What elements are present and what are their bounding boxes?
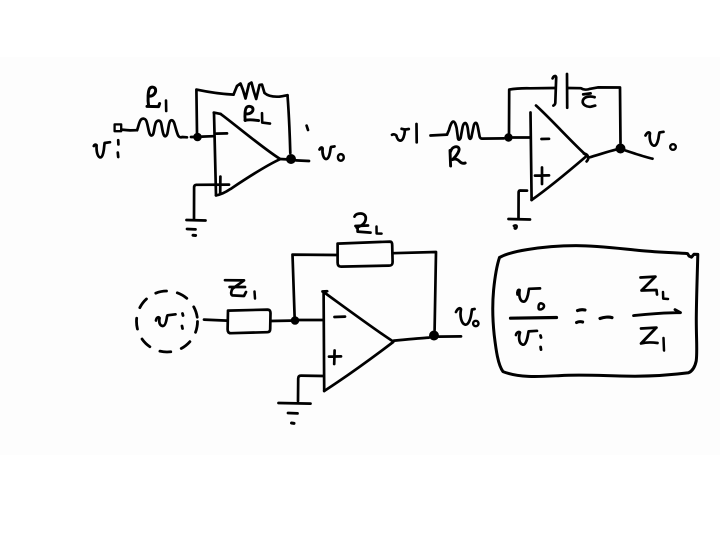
- op-amp U1 body: [214, 113, 280, 196]
- wire output (circuit 1): [296, 159, 309, 162]
- resistor R1: [137, 119, 187, 138]
- impedance Z2 box: [338, 242, 393, 267]
- op-amp U1 inverting pin label: [217, 132, 228, 135]
- drawing canvas band: [0, 57, 720, 455]
- node Vi label (circuit 3): [156, 314, 183, 329]
- label Vo (circuit 1): [320, 146, 344, 160]
- wire op-amp U3 output to node: [394, 338, 429, 341]
- node output junction (circuit 2): [616, 144, 626, 154]
- capacitor C plate 2: [566, 74, 569, 108]
- wire op-amp U2 output to node: [589, 150, 616, 158]
- wire output stub (circuit 3): [439, 335, 461, 338]
- label Vo (circuit 3): [456, 308, 478, 326]
- resistor R: [447, 122, 504, 140]
- wire Vi terminal to R1: [121, 128, 137, 131]
- label Z2: [355, 214, 382, 234]
- formula numerator Vo: [517, 288, 544, 309]
- label R2: [245, 106, 270, 123]
- wire R1 to inverting junction: [191, 136, 194, 139]
- wire non-inverting input to ground (circuit 3): [298, 376, 324, 401]
- op-amp U2 body: [531, 106, 589, 201]
- capacitor C plate 1: [553, 76, 557, 106]
- wire non-inverting input to ground (circuit 2): [519, 191, 528, 219]
- source Vi dashed circle: [137, 291, 198, 352]
- resistor R2: [234, 83, 288, 99]
- wire Z1 to inverting junction (circuit 3): [271, 319, 292, 322]
- wire feedback up (circuit 3): [293, 255, 337, 317]
- formula equals sign: [577, 310, 585, 323]
- op-amp U3 non-inverting pin label: [329, 351, 341, 365]
- wire feedback up (circuit 1): [196, 90, 233, 133]
- label R (circuit 2): [450, 147, 465, 166]
- wire Z2 to output node (circuit 3): [393, 252, 436, 330]
- label Z1: [225, 280, 255, 298]
- formula denominator Z1: [641, 328, 664, 351]
- ground (circuit 1): [187, 220, 206, 236]
- node junction inverting input (circuit 3): [291, 316, 300, 325]
- op-amp U2 non-inverting pin label: [535, 168, 549, 185]
- wire R2 to output node: [288, 95, 291, 153]
- impedance Z1 box: [228, 310, 271, 334]
- node junction inverting input (circuit 2): [504, 133, 512, 141]
- node output junction (circuit 1): [286, 154, 296, 164]
- wire feedback up (circuit 2): [509, 88, 555, 134]
- formula fraction bar Vo/Vi: [511, 316, 557, 320]
- formula denominator Vi: [516, 331, 541, 350]
- wire non-inverting input to ground (circuit 1): [194, 185, 229, 219]
- op-amp U3 body: [323, 291, 394, 391]
- formula minus sign: [600, 317, 612, 318]
- wire junction to op-amp U3: [299, 319, 323, 322]
- node Vi label (circuit 1): [94, 140, 119, 157]
- formula box outline: [493, 246, 698, 377]
- ground (circuit 3): [279, 403, 311, 423]
- op-amp U3 inverting pin label: [335, 315, 346, 318]
- wire Vi source to Z1: [204, 320, 227, 321]
- tick mark near Vo (circuit 1): [307, 126, 308, 130]
- label Vo (circuit 2): [646, 132, 676, 150]
- node Vi label (circuit 2): [392, 124, 417, 142]
- wire junction to op-amp U2: [513, 136, 530, 139]
- wire junction to op-amp U1: [202, 135, 213, 138]
- node output junction (circuit 3): [429, 331, 439, 341]
- label R1: [147, 87, 166, 111]
- formula fraction bar Z2/Z1 with arrow: [634, 310, 681, 316]
- wire output (circuit 2): [626, 151, 653, 159]
- input terminal (circuit 1): [115, 124, 122, 131]
- node junction inverting input (circuit 1): [193, 133, 202, 142]
- wire op-amp U1 output to node: [280, 158, 287, 161]
- wire C to output node (circuit 2): [567, 87, 620, 143]
- label C: [583, 93, 595, 106]
- op-amp U1 non-inverting pin label: [219, 177, 222, 194]
- ground (circuit 2): [509, 219, 531, 229]
- wire Vi to R (circuit 2): [431, 133, 448, 137]
- formula numerator Z2: [641, 277, 669, 299]
- op-amp U2 inverting pin label: [542, 137, 550, 140]
